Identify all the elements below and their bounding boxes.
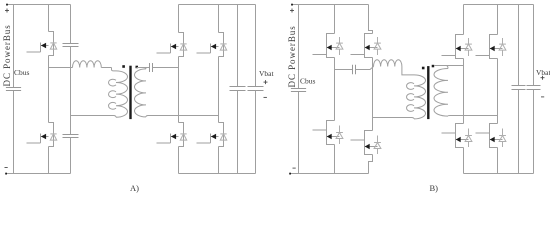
svg-text:Cbus: Cbus (300, 77, 316, 86)
svg-text:B): B) (430, 183, 439, 193)
svg-text:DC PowerBus: DC PowerBus (2, 24, 12, 86)
svg-text:Vbat: Vbat (536, 68, 550, 77)
svg-text:Vbat: Vbat (259, 69, 274, 78)
svg-text:A): A) (130, 183, 139, 193)
svg-text:Cbus: Cbus (14, 68, 30, 77)
svg-text:DC PowerBus: DC PowerBus (287, 25, 297, 87)
